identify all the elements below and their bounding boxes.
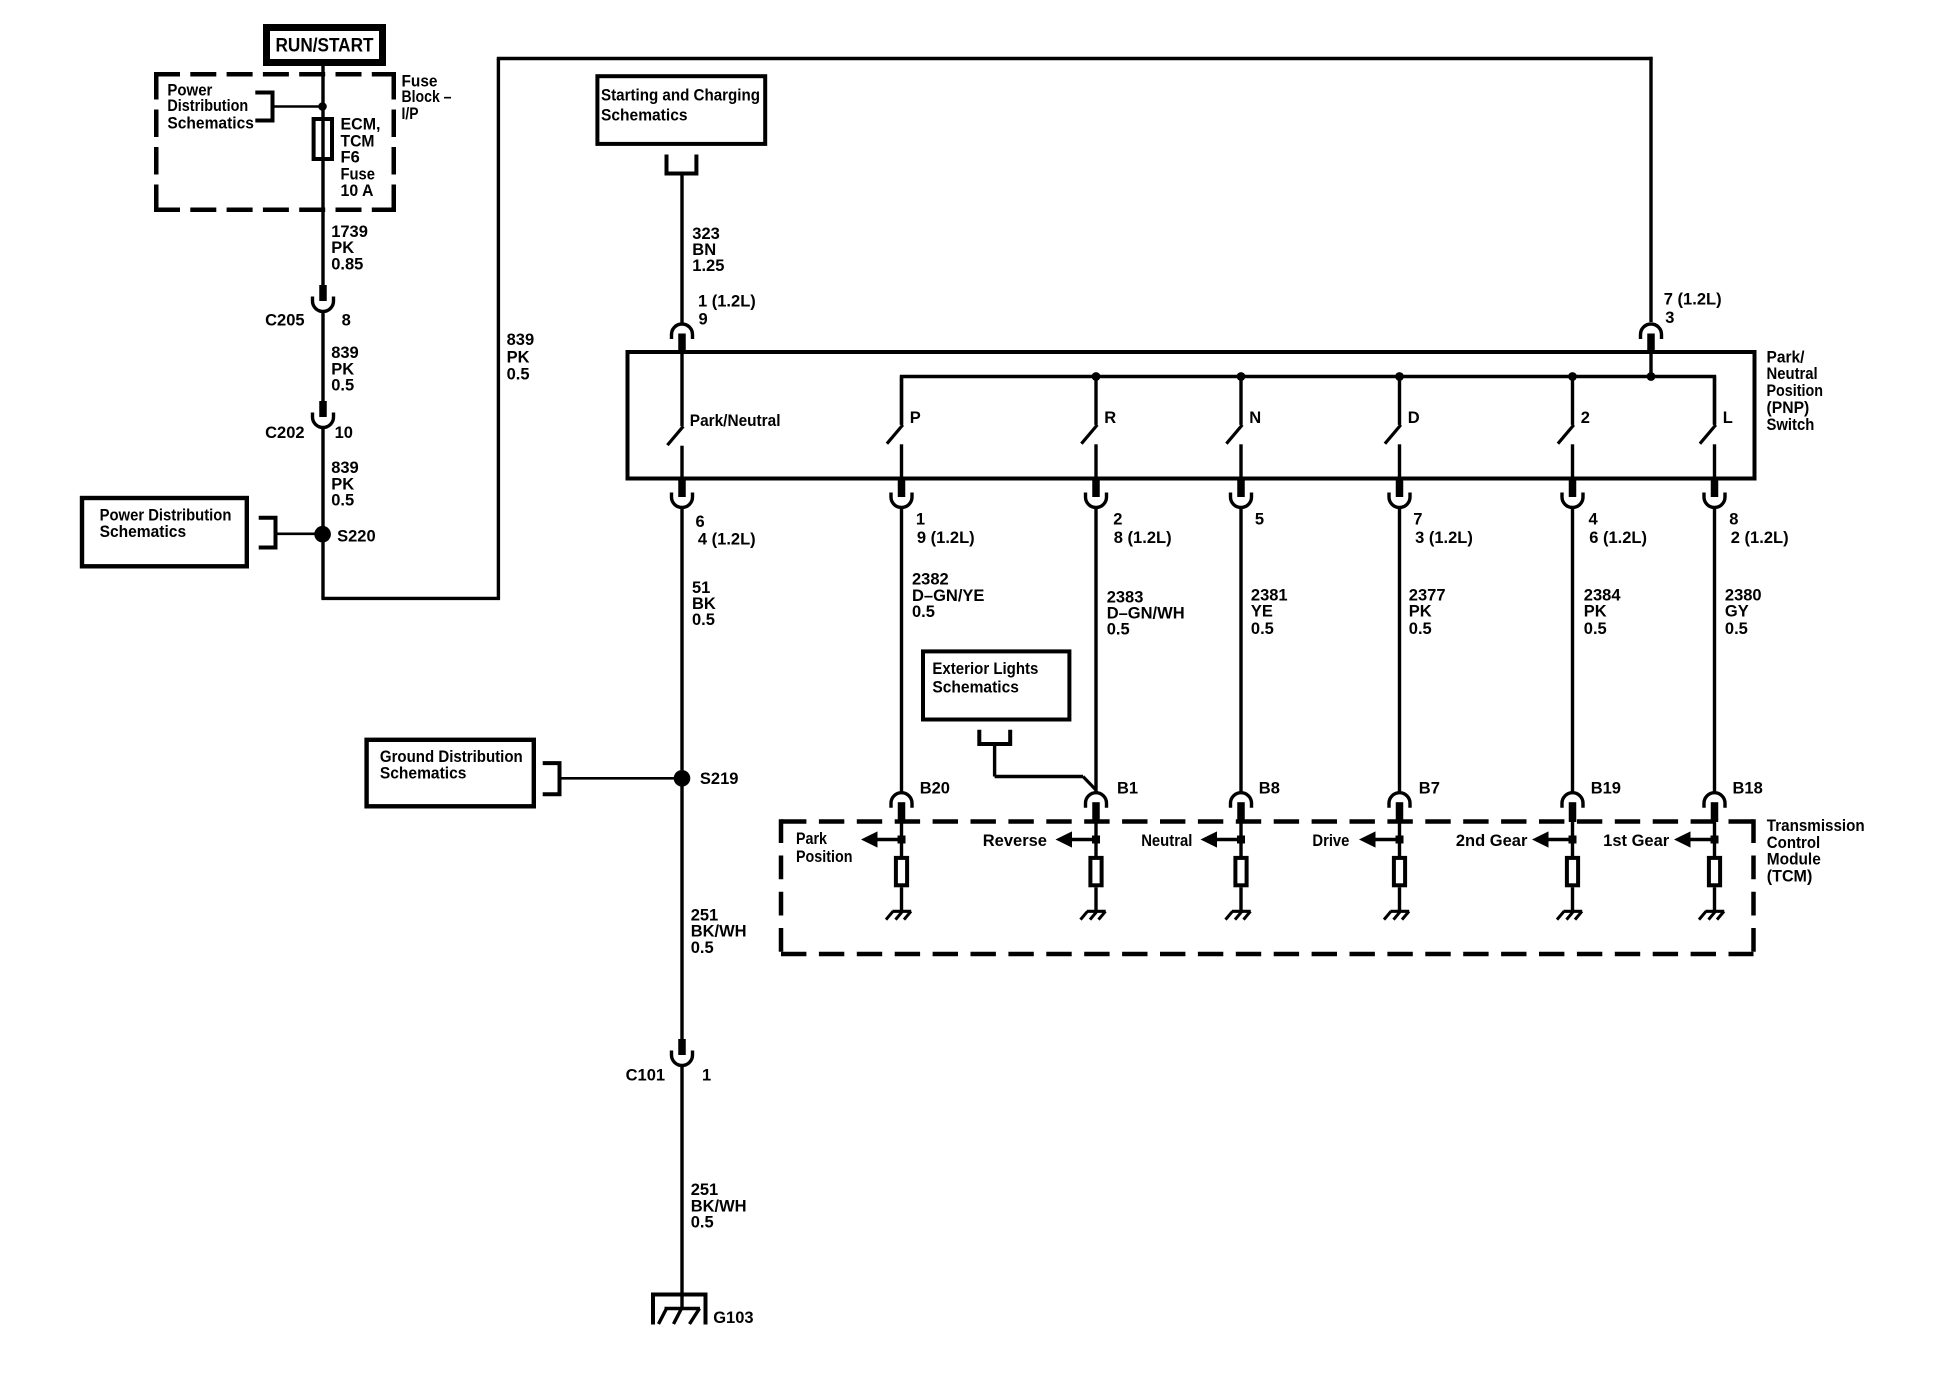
switch 2 <box>1571 377 1574 425</box>
svg-text:C205: C205 <box>265 311 304 329</box>
fuse F6 (ECM, TCM Fuse 10 A) <box>321 119 324 159</box>
svg-text:8 (1.2L): 8 (1.2L) <box>1114 529 1172 547</box>
svg-text:4: 4 <box>1589 511 1599 529</box>
connector PNP pin 2 out (R) <box>1092 481 1100 498</box>
svg-text:0.5: 0.5 <box>507 366 530 384</box>
svg-text:839: 839 <box>507 331 535 349</box>
svg-text:839: 839 <box>331 344 359 362</box>
svg-text:Schematics: Schematics <box>601 106 688 124</box>
ground G103 <box>653 1295 706 1325</box>
wire fuse to C205 <box>321 159 324 285</box>
wire bracket to S220 <box>278 532 317 535</box>
wire L to B18 <box>1713 509 1716 793</box>
switch P <box>900 377 903 425</box>
svg-text:1.25: 1.25 <box>692 257 724 275</box>
svg-text:Switch: Switch <box>1767 416 1815 434</box>
svg-text:10 A: 10 A <box>341 182 374 200</box>
svg-text:0.85: 0.85 <box>331 255 363 273</box>
svg-text:N: N <box>1249 409 1261 427</box>
switch N <box>1239 377 1242 425</box>
TCM 1st gear sense circuit with resistor and ground <box>1713 822 1716 858</box>
wire C205 to C202 <box>321 313 324 401</box>
svg-text:0.5: 0.5 <box>1725 620 1748 638</box>
junction bus at pin7 <box>1647 372 1656 381</box>
svg-text:TCM: TCM <box>341 132 375 150</box>
svg-text:2: 2 <box>1581 409 1590 427</box>
svg-text:G103: G103 <box>713 1309 753 1327</box>
svg-text:2384: 2384 <box>1584 586 1622 604</box>
svg-text:Neutral: Neutral <box>1767 365 1818 383</box>
svg-text:L: L <box>1723 409 1733 427</box>
connector TCM B19 <box>1562 793 1583 808</box>
svg-text:Module: Module <box>1767 851 1821 869</box>
svg-text:Exterior Lights: Exterior Lights <box>932 660 1038 678</box>
svg-text:Position: Position <box>1767 382 1824 400</box>
svg-text:Park: Park <box>796 830 828 848</box>
connector TCM B1 <box>1086 793 1107 808</box>
svg-text:PK: PK <box>1409 603 1432 621</box>
bracket for Power Distribution box <box>259 518 276 548</box>
wire R to B1 <box>1094 509 1097 793</box>
svg-text:YE: YE <box>1251 603 1273 621</box>
splice S219 <box>674 770 691 787</box>
svg-text:S219: S219 <box>700 770 739 788</box>
svg-text:BK/WH: BK/WH <box>691 1197 747 1215</box>
svg-text:Fuse: Fuse <box>341 165 376 183</box>
connector C202 pin 10 <box>319 401 327 417</box>
svg-text:R: R <box>1104 409 1116 427</box>
switch R <box>1094 377 1097 425</box>
svg-text:0.5: 0.5 <box>1107 621 1130 639</box>
svg-text:C202: C202 <box>265 424 304 442</box>
wire Exterior Lights to R circuit <box>993 746 996 777</box>
wire down to PNP pin 7 <box>1649 57 1652 322</box>
Power Distribution Schematics box <box>82 498 247 566</box>
bracket for Power Distribution reference <box>255 93 272 121</box>
wire bracket to S219 <box>562 777 676 780</box>
bracket under Exterior Lights box <box>977 730 1012 744</box>
switch L <box>1713 377 1716 425</box>
TCM drive sense circuit with resistor and ground <box>1398 822 1401 858</box>
TCM 2nd gear sense circuit with resistor and ground <box>1571 822 1574 858</box>
Starting and Charging Schematics box <box>597 76 765 144</box>
svg-text:Park/Neutral: Park/Neutral <box>690 412 781 430</box>
connector PNP pin 5 out (N) <box>1237 481 1245 498</box>
svg-text:6: 6 <box>696 513 705 531</box>
svg-text:I/P: I/P <box>402 105 419 123</box>
svg-text:C101: C101 <box>626 1067 665 1085</box>
wire reference to fuse node <box>275 105 320 108</box>
svg-text:B18: B18 <box>1733 780 1763 798</box>
connector PNP pin 8 out (L) <box>1711 481 1719 498</box>
wire up left side <box>497 59 500 601</box>
svg-text:Schematics: Schematics <box>380 765 467 783</box>
switch Park/Neutral <box>680 352 683 426</box>
svg-text:Schematics: Schematics <box>100 523 187 541</box>
svg-text:0.5: 0.5 <box>331 492 354 510</box>
connector TCM B8 <box>1231 793 1252 808</box>
Park/Neutral Position Switch box <box>628 352 1755 479</box>
svg-text:BK/WH: BK/WH <box>691 922 747 940</box>
svg-text:B20: B20 <box>920 780 950 798</box>
svg-text:RUN/START: RUN/START <box>276 36 374 57</box>
wire P to B20 <box>900 509 903 793</box>
svg-text:1 (1.2L): 1 (1.2L) <box>698 292 756 310</box>
svg-text:1739: 1739 <box>331 223 368 241</box>
svg-text:PK: PK <box>1584 603 1607 621</box>
svg-text:2nd Gear: 2nd Gear <box>1456 832 1528 850</box>
svg-text:PK: PK <box>507 348 530 366</box>
wire to PNP pin 1 <box>680 176 683 324</box>
svg-text:1: 1 <box>916 511 925 529</box>
connector PNP pin 1 out (P) <box>898 481 906 498</box>
svg-text:Starting and Charging: Starting and Charging <box>601 87 760 105</box>
junction bus at D <box>1395 372 1404 381</box>
svg-text:B1: B1 <box>1117 780 1138 798</box>
svg-text:Park/: Park/ <box>1767 348 1805 366</box>
svg-text:2: 2 <box>1113 511 1122 529</box>
connector PNP pin 1 <box>672 324 693 339</box>
svg-text:Drive: Drive <box>1312 832 1349 850</box>
connector PNP pin 6 (Park/Neutral out) <box>678 481 686 498</box>
bracket under Starting and Charging box <box>665 155 699 174</box>
svg-text:Ground Distribution: Ground Distribution <box>380 748 523 766</box>
svg-text:GY: GY <box>1725 603 1749 621</box>
connector C205 pin 8 <box>319 285 327 301</box>
TCM reverse sense circuit with resistor and ground <box>1094 822 1097 858</box>
svg-text:S220: S220 <box>337 527 376 545</box>
wire Park/Neutral to S219 <box>680 509 683 771</box>
svg-text:0.5: 0.5 <box>331 377 354 395</box>
wire S219 to C101 <box>680 786 683 1040</box>
svg-text:Reverse: Reverse <box>983 832 1047 850</box>
svg-text:9: 9 <box>699 311 708 329</box>
svg-text:P: P <box>910 409 921 427</box>
svg-text:6 (1.2L): 6 (1.2L) <box>1589 529 1647 547</box>
svg-text:10: 10 <box>335 424 353 442</box>
TCM neutral sense circuit with resistor and ground <box>1239 822 1242 858</box>
svg-text:D: D <box>1408 409 1420 427</box>
Transmission Control Module dashed box <box>781 819 1754 824</box>
svg-text:5: 5 <box>1255 511 1264 529</box>
svg-text:2381: 2381 <box>1251 586 1288 604</box>
svg-text:0.5: 0.5 <box>691 1214 714 1232</box>
switch D <box>1398 377 1401 425</box>
svg-text:3 (1.2L): 3 (1.2L) <box>1415 529 1473 547</box>
svg-text:8: 8 <box>1729 511 1738 529</box>
wire N to B8 <box>1239 509 1242 793</box>
svg-text:Block –: Block – <box>402 88 452 106</box>
wire D to B7 <box>1398 509 1401 793</box>
svg-text:0.5: 0.5 <box>692 611 715 629</box>
svg-text:0.5: 0.5 <box>1409 620 1432 638</box>
connector PNP pin 4 out (2) <box>1569 481 1577 498</box>
connector C101 pin 1 <box>678 1039 686 1055</box>
svg-text:B8: B8 <box>1259 780 1280 798</box>
svg-text:1st Gear: 1st Gear <box>1603 832 1670 850</box>
wire RUN/START to fuse <box>321 66 324 119</box>
connector PNP pin 7 <box>1641 324 1662 339</box>
svg-text:(TCM): (TCM) <box>1767 868 1813 886</box>
Exterior Lights Schematics box <box>923 651 1069 719</box>
svg-text:Transmission: Transmission <box>1767 817 1865 835</box>
svg-text:B19: B19 <box>1591 780 1621 798</box>
node RUN/START (ignition feed) <box>267 28 383 63</box>
connector TCM B7 <box>1389 793 1410 808</box>
bracket for Ground Distribution box <box>543 763 560 794</box>
svg-text:F6: F6 <box>341 149 360 167</box>
svg-text:2 (1.2L): 2 (1.2L) <box>1731 529 1789 547</box>
internal bus wire <box>902 377 1715 425</box>
svg-text:9 (1.2L): 9 (1.2L) <box>917 529 975 547</box>
wire pin7 to bus <box>1649 352 1652 378</box>
wire C202 to S220 <box>321 429 324 530</box>
junction at fuse input <box>318 102 327 111</box>
svg-text:0.5: 0.5 <box>1584 620 1607 638</box>
connector TCM B18 <box>1704 793 1725 808</box>
svg-text:3: 3 <box>1665 309 1674 327</box>
svg-text:Schematics: Schematics <box>167 114 254 132</box>
junction bus at R <box>1092 372 1101 381</box>
svg-text:4 (1.2L): 4 (1.2L) <box>698 530 756 548</box>
svg-text:0.5: 0.5 <box>691 939 714 957</box>
wire S220 down and right <box>321 542 324 598</box>
svg-text:0.5: 0.5 <box>1251 620 1274 638</box>
svg-text:(PNP): (PNP) <box>1767 399 1810 417</box>
wire top horizontal run <box>497 57 1653 60</box>
wire 2 to B19 <box>1571 509 1574 793</box>
svg-text:Distribution: Distribution <box>167 97 248 115</box>
junction bus at N <box>1237 372 1246 381</box>
svg-text:8: 8 <box>342 311 351 329</box>
svg-text:0.5: 0.5 <box>912 603 935 621</box>
svg-text:Neutral: Neutral <box>1141 832 1192 850</box>
TCM park position sense circuit with resistor and ground <box>900 822 903 858</box>
Fuse Block - I/P dashed box <box>154 72 396 77</box>
svg-text:ECM,: ECM, <box>341 116 381 134</box>
connector TCM B20 <box>891 793 912 808</box>
connector PNP pin 7 out (D) <box>1396 481 1404 498</box>
svg-text:7: 7 <box>1413 511 1422 529</box>
svg-text:2377: 2377 <box>1409 586 1446 604</box>
splice S220 <box>314 526 331 543</box>
svg-text:B7: B7 <box>1419 780 1440 798</box>
svg-text:7 (1.2L): 7 (1.2L) <box>1664 291 1722 309</box>
svg-text:Control: Control <box>1767 834 1820 852</box>
Ground Distribution Schematics box <box>367 740 534 807</box>
svg-text:Schematics: Schematics <box>932 679 1019 697</box>
svg-text:1: 1 <box>702 1067 711 1085</box>
wire C101 to G103 <box>680 1067 683 1309</box>
svg-text:2380: 2380 <box>1725 586 1762 604</box>
svg-text:Position: Position <box>796 848 853 866</box>
junction bus at 2 <box>1568 372 1577 381</box>
